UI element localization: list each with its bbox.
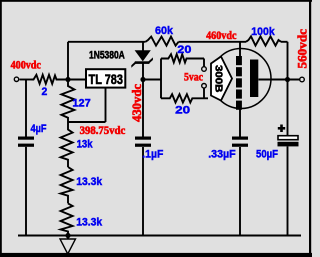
wire top rail right <box>281 41 288 43</box>
resistor 13.3k upper <box>61 167 73 203</box>
svg-text:2: 2 <box>42 86 48 98</box>
wire 50uF lower <box>287 147 289 236</box>
wire 430vdc vertical upper <box>142 80 144 137</box>
wire 4uF branch lower <box>25 147 27 236</box>
tube grid dashes <box>236 56 242 110</box>
svg-text:430vdc: 430vdc <box>130 84 144 122</box>
svg-text:13k: 13k <box>77 139 94 151</box>
zener diode 1N5380A wires <box>142 42 144 51</box>
TL783 regulator box <box>86 69 125 87</box>
svg-text:1N5380A: 1N5380A <box>89 50 125 62</box>
svg-text:60k: 60k <box>155 25 174 37</box>
svg-text:4µF: 4µF <box>31 123 47 135</box>
wire <box>58 79 86 81</box>
svg-text:460vdc: 460vdc <box>206 30 236 42</box>
bottom ground rail <box>18 235 301 237</box>
junction dot input node <box>65 77 70 82</box>
border frame <box>0 0 312 2</box>
wire to filament loop <box>143 79 161 81</box>
svg-text:300B: 300B <box>213 65 225 93</box>
svg-text:5vac: 5vac <box>184 72 203 84</box>
wire bottom pin <box>203 88 205 98</box>
ground symbol <box>60 239 76 254</box>
svg-text:398.75vdc: 398.75vdc <box>80 125 126 137</box>
svg-text:127: 127 <box>72 98 90 110</box>
svg-text:TL 783: TL 783 <box>89 71 124 87</box>
capacitor .1uF <box>135 137 151 147</box>
wire adj node horizontal <box>68 121 106 123</box>
resistor 13k <box>61 122 73 167</box>
zener diode 1N5380A symbol <box>131 50 153 68</box>
resistor 20 top <box>161 54 204 62</box>
resistor R 2 ohm <box>32 75 59 84</box>
wire grid lower to .33uF <box>239 109 241 137</box>
capacitor 4uF <box>18 137 34 147</box>
svg-text:13.3k: 13.3k <box>76 217 103 229</box>
svg-text:20: 20 <box>175 105 190 117</box>
junction dot 430vdc node <box>140 77 145 82</box>
svg-text:50µF: 50µF <box>256 148 278 160</box>
pin circle bottom <box>202 84 207 89</box>
wire filament loop vertical <box>160 59 162 99</box>
svg-text:.1µF: .1µF <box>142 149 163 161</box>
output terminal 560vdc <box>300 77 305 82</box>
svg-text:.33µF: .33µF <box>208 148 236 160</box>
wire top rail mid <box>179 41 247 43</box>
svg-text:560vdc: 560vdc <box>296 29 310 69</box>
wire 430vdc vertical lower <box>142 147 144 236</box>
wire .33uF lower <box>239 147 241 236</box>
ground stub <box>67 236 69 240</box>
wire grid drop <box>239 42 241 56</box>
wire top pin <box>203 59 205 67</box>
wire plate to output <box>259 79 300 81</box>
input terminal 400vdc <box>14 77 18 81</box>
resistor 100k <box>246 36 281 45</box>
junction dot ground node <box>65 233 70 238</box>
wire 4uF branch upper <box>25 80 27 137</box>
resistor 13.3k lower <box>61 203 73 235</box>
wire adj pin vertical <box>105 88 107 123</box>
wire <box>20 79 32 81</box>
wire node in to top rail <box>67 42 69 80</box>
junction dot output node <box>285 77 290 82</box>
resistor 60k <box>146 37 179 46</box>
capacitor 50uF electrolytic <box>278 125 299 147</box>
resistor 127 <box>61 80 74 123</box>
wire top rail left <box>68 41 146 43</box>
tube plate bar <box>250 60 258 98</box>
svg-text:400vdc: 400vdc <box>11 59 41 71</box>
capacitor .33uF <box>232 137 248 147</box>
svg-text:100k: 100k <box>251 26 275 38</box>
resistor 20 bottom <box>161 94 208 102</box>
wire 100k down to plate node <box>287 42 289 136</box>
tube envelope <box>211 49 271 109</box>
svg-text:13.3k: 13.3k <box>76 176 103 188</box>
svg-text:20: 20 <box>177 44 191 56</box>
pin circle top <box>202 67 207 72</box>
tube 300B internals: filament tag <box>211 57 232 101</box>
